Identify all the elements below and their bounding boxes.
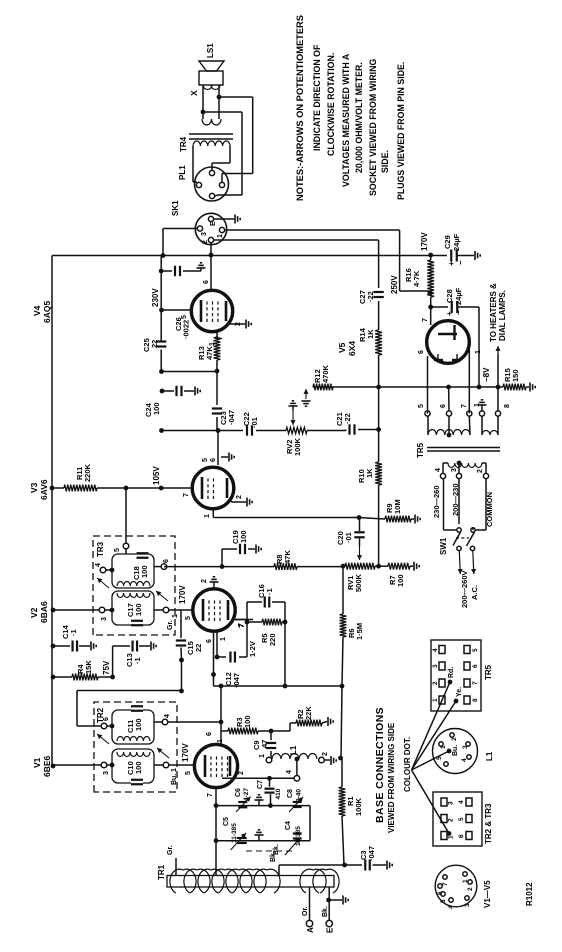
terminal A — [302, 887, 315, 933]
wire voice coil bottom — [218, 85, 220, 119]
svg-text:1: 1 — [172, 614, 179, 618]
wire V5 pin1 to TR5-7 — [469, 342, 482, 414]
svg-text:470K: 470K — [321, 364, 330, 383]
wire screen line — [160, 256, 162, 342]
tuned circuit TR2 primary — [112, 749, 154, 783]
svg-text:·22: ·22 — [343, 413, 352, 424]
svg-text:C4: C4 — [285, 821, 292, 830]
svg-text:150: 150 — [511, 369, 520, 382]
trim arrow TR3 b — [156, 591, 168, 601]
svg-text:7: 7 — [472, 681, 479, 685]
svg-text:C7: C7 — [257, 780, 264, 789]
svg-text:1K: 1K — [365, 468, 374, 478]
node RV1 top — [341, 564, 346, 569]
label X — [189, 90, 199, 96]
svg-text:24µF: 24µF — [452, 233, 461, 251]
transformer TR4 primary — [193, 141, 230, 146]
svg-text:·01: ·01 — [344, 532, 353, 543]
svg-text:VOLTAGES MEASURED WITH A: VOLTAGES MEASURED WITH A — [341, 53, 351, 187]
ground osc B — [255, 830, 264, 841]
diagram V1-V5 base — [435, 865, 492, 909]
note line 3 — [326, 53, 336, 156]
svg-text:2: 2 — [467, 887, 474, 891]
label 230V — [151, 288, 160, 307]
resistor R5 — [260, 619, 282, 646]
svg-text:100: 100 — [134, 761, 143, 774]
wire V5 pin6 to TR5-5 — [418, 350, 428, 414]
wire TR2-1 to V1 pin5 — [169, 764, 195, 766]
svg-text:+: + — [445, 311, 454, 316]
node C23/screen line — [216, 428, 221, 433]
note line 5 — [354, 62, 364, 173]
svg-text:·0022: ·0022 — [182, 320, 191, 339]
svg-text:1·5M: 1·5M — [355, 623, 364, 640]
trim arrow TR2 b — [157, 748, 169, 758]
svg-text:5: 5 — [185, 616, 192, 620]
lines colour dot TR5 — [412, 682, 457, 770]
wire SK1-bottom line — [214, 239, 379, 241]
svg-text:4: 4 — [286, 770, 293, 774]
label VIEWED FROM WIRING SIDE — [387, 722, 396, 833]
svg-text:SK1: SK1 — [171, 200, 180, 216]
svg-text:6BE6: 6BE6 — [42, 755, 52, 777]
label 75V — [102, 660, 111, 675]
tuned circuit TR2 secondary — [112, 710, 154, 744]
label -8V — [482, 367, 491, 382]
capacitor C14 — [51, 624, 97, 651]
svg-text:170V: 170V — [420, 232, 429, 251]
svg-text:SIDE.: SIDE. — [380, 150, 390, 173]
svg-text:2: 2 — [477, 469, 484, 473]
trim arrow TR3 a — [97, 578, 109, 588]
pin TR3-6 — [154, 559, 170, 569]
svg-text:C6: C6 — [235, 788, 242, 797]
svg-text:3: 3 — [432, 664, 439, 668]
pin L1-2 — [319, 752, 329, 763]
svg-text:4: 4 — [95, 563, 102, 567]
svg-text:·1: ·1 — [265, 588, 274, 595]
svg-text:6: 6 — [163, 559, 170, 563]
transformer TR5 primary — [448, 463, 482, 468]
svg-text:22K: 22K — [304, 706, 313, 720]
svg-text:220K: 220K — [83, 463, 92, 482]
note line 8 — [396, 62, 406, 200]
wire Bk to C3 — [270, 851, 345, 875]
transformer TR2 box — [94, 702, 177, 792]
svg-text:Bk.: Bk. — [270, 851, 277, 862]
svg-text:NOTES:-ARROWS ON POTENTIOMETER: NOTES:-ARROWS ON POTENTIOMETERS — [295, 15, 305, 201]
wire B+ right drop — [52, 255, 431, 257]
resistor R9 — [359, 499, 420, 523]
pin TR5-8 — [495, 404, 511, 435]
svg-text:100: 100 — [134, 603, 143, 616]
pin SK1-3 — [197, 226, 208, 236]
wire R5 bottom — [282, 620, 287, 686]
svg-text:A: A — [306, 927, 315, 933]
svg-text:100K: 100K — [293, 437, 302, 456]
pin TR5-5 — [418, 404, 430, 435]
transformer TR5 heater winding — [482, 431, 498, 436]
wire RV2 to C21 — [307, 430, 346, 431]
label Bk. rod — [273, 844, 280, 855]
wire osc line A — [216, 805, 310, 807]
svg-text:SOCKET VIEWED FROM WIRING: SOCKET VIEWED FROM WIRING — [368, 59, 378, 196]
wire V1 cathode — [207, 787, 218, 876]
svg-text:6: 6 — [203, 280, 210, 284]
pin PL1-c — [219, 182, 224, 187]
svg-text:6: 6 — [418, 350, 425, 354]
colour dot Rd — [448, 667, 455, 685]
svg-text:105V: 105V — [152, 466, 161, 485]
label 200-230 — [451, 483, 460, 516]
capacitor C9 — [252, 731, 276, 758]
svg-text:6AV6: 6AV6 — [39, 479, 49, 500]
svg-text:+: + — [447, 261, 456, 266]
wire TR2-3 to bus — [53, 764, 101, 766]
wire R6 to R1 node — [341, 686, 342, 758]
colour dot Bu — [447, 745, 459, 756]
gang dashed link — [246, 850, 292, 852]
svg-text:6: 6 — [210, 458, 217, 462]
wire TR4 prim top to PL1 — [193, 146, 197, 182]
resistor R13 — [197, 332, 220, 371]
capacitor C25 — [142, 338, 166, 371]
node 170V — [420, 232, 433, 258]
svg-text:6: 6 — [206, 732, 213, 736]
svg-text:2: 2 — [451, 737, 458, 741]
pin TR5-1 — [474, 403, 485, 435]
svg-text:5: 5 — [440, 899, 447, 903]
tube V1 — [194, 744, 237, 787]
svg-text:INDICATE DIRECTION OF: INDICATE DIRECTION OF — [312, 44, 322, 151]
pin L1-4 — [286, 757, 300, 782]
pin PL1-d — [209, 193, 214, 198]
svg-text:6BA6: 6BA6 — [39, 601, 49, 623]
pin TR3-1 — [154, 607, 179, 618]
diagram TR5 base — [431, 640, 481, 711]
wire V4 pin2 ground — [228, 320, 251, 329]
label V2 pins — [206, 637, 227, 643]
svg-text:V5: V5 — [337, 342, 347, 353]
ground R15 — [526, 383, 535, 392]
svg-text:100: 100 — [243, 715, 252, 728]
svg-text:100: 100 — [239, 530, 248, 543]
winding TR1 primary — [170, 869, 280, 893]
pin TR2-4 — [154, 714, 171, 725]
arrow heater feed top — [302, 389, 311, 406]
svg-text:7: 7 — [183, 493, 190, 497]
wire B+ bus (top rail) — [51, 256, 53, 767]
svg-text:·047: ·047 — [367, 846, 376, 861]
wire C25 feed — [159, 369, 217, 374]
label TR2 and TR3 base — [484, 803, 493, 844]
label 200-260V A.C. — [460, 570, 479, 608]
winding TR3 secondary — [117, 582, 150, 587]
winding TR1 secondary — [300, 869, 339, 893]
colour dot Ye — [454, 687, 463, 704]
svg-text:5: 5 — [458, 817, 465, 821]
svg-text:X: X — [189, 90, 199, 96]
svg-text:4-27: 4-27 — [243, 788, 250, 801]
pins TR2TR3 base — [441, 798, 472, 840]
pin SK1-E — [208, 216, 217, 226]
svg-text:4: 4 — [448, 905, 455, 909]
node R4/75V — [110, 675, 115, 680]
capacitor C29 — [431, 233, 481, 266]
label V1 6BE6 — [32, 755, 52, 777]
label TO HEATERS — [489, 283, 507, 342]
resistor R6 — [340, 566, 364, 686]
svg-text:Or.: Or. — [302, 906, 309, 916]
wire V2 pin5 — [169, 610, 193, 620]
svg-text:E: E — [326, 927, 335, 933]
label Bu. — [171, 774, 178, 785]
svg-text:3: 3 — [462, 745, 469, 749]
pin TR5-2 — [477, 463, 489, 479]
svg-text:·1: ·1 — [69, 629, 78, 636]
svg-text:A.C.: A.C. — [470, 585, 479, 600]
resistor R11 — [52, 463, 97, 491]
wire TR2-6 riser — [77, 691, 182, 727]
ground V3 top — [221, 453, 234, 462]
svg-text:10M: 10M — [393, 499, 402, 514]
svg-text:7: 7 — [442, 882, 449, 886]
pin TR5-3 — [451, 461, 462, 479]
svg-text:·01: ·01 — [250, 417, 259, 428]
pin SK1-1 — [217, 227, 225, 238]
node R5 left — [245, 620, 250, 625]
ground TR5-1 — [478, 400, 487, 411]
resistor R3 — [221, 715, 273, 734]
node speaker tap 2 — [217, 95, 222, 100]
trim arrow TR2 a — [97, 734, 109, 744]
svg-text:L1: L1 — [289, 745, 298, 755]
svg-text:1: 1 — [217, 234, 224, 238]
wire C21 to long line — [358, 427, 381, 432]
svg-text:7: 7 — [461, 404, 468, 408]
wire V1 pin2 — [222, 771, 294, 781]
svg-text:7: 7 — [207, 793, 214, 797]
transformer TR5 core — [416, 442, 500, 458]
capacitor C10 — [126, 761, 143, 785]
resistor R2 — [271, 706, 333, 731]
svg-text:200—260V: 200—260V — [460, 570, 469, 608]
pin TR3-4 — [95, 563, 114, 573]
capacitor C8 — [287, 789, 303, 812]
wire det line — [164, 566, 274, 568]
wire TR2-4 to V1 plate — [168, 720, 224, 725]
svg-text:E: E — [210, 221, 217, 226]
svg-text:22: 22 — [150, 340, 159, 348]
label V5 6X4 — [337, 341, 357, 356]
plug PL1 — [178, 165, 229, 201]
svg-text:V1—V5: V1—V5 — [483, 880, 492, 908]
pin L1-1 — [259, 754, 272, 763]
potentiometer RV2 — [285, 427, 307, 456]
transformer TR3 box — [93, 536, 175, 635]
label BASE CONNECTIONS — [374, 707, 386, 823]
svg-text:SW1: SW1 — [439, 537, 448, 555]
svg-text:V3: V3 — [29, 482, 39, 493]
ground V3 pin2 — [229, 495, 252, 507]
svg-text:4: 4 — [432, 648, 439, 652]
svg-text:2: 2 — [201, 579, 208, 583]
ground SK1-E — [214, 215, 241, 224]
svg-text:230—260: 230—260 — [432, 485, 441, 518]
label V3 6AV6 — [29, 479, 49, 500]
svg-text:C29: C29 — [443, 235, 452, 249]
wire V2 pin7 — [235, 620, 253, 628]
wire voice coil top — [202, 85, 204, 119]
pin TR5-7 — [461, 404, 472, 435]
capacitor C26 — [159, 263, 206, 339]
tube V3 — [192, 467, 234, 509]
label 1.2V — [248, 641, 257, 657]
svg-text:11-385: 11-385 — [295, 826, 302, 846]
ground V2 pin2 — [201, 577, 219, 589]
ground osc A — [255, 795, 264, 806]
note line 1 — [295, 15, 305, 201]
line colour dot L1 — [412, 751, 450, 770]
capacitor C12 — [217, 622, 247, 688]
svg-text:5: 5 — [185, 771, 192, 775]
wire V3 pin1 — [204, 509, 359, 518]
svg-text:8: 8 — [472, 698, 479, 702]
svg-text:8: 8 — [504, 404, 511, 408]
resistor R12 — [313, 364, 333, 390]
pin TR2-1 — [154, 762, 178, 772]
svg-text:4: 4 — [435, 468, 442, 472]
wire C15 to corner — [179, 660, 184, 693]
pin TR5-6 — [440, 404, 452, 437]
capacitor C22 — [242, 412, 259, 435]
svg-text:PL1: PL1 — [178, 165, 187, 180]
svg-text:100K: 100K — [354, 797, 363, 816]
capacitor C21 — [335, 412, 355, 434]
wire V2 cathode lines — [211, 631, 219, 686]
pins TR5 base — [432, 646, 479, 705]
svg-text:PLUGS VIEWED FROM PIN SIDE.: PLUGS VIEWED FROM PIN SIDE. — [396, 62, 406, 200]
pin TR3-5 — [114, 543, 129, 554]
wire heater line — [313, 386, 503, 388]
node det/R9 — [357, 515, 362, 520]
svg-text:V2: V2 — [29, 607, 39, 618]
winding TR2 primary — [117, 752, 150, 757]
coil L1 — [272, 745, 317, 759]
node R13/C23 — [215, 369, 220, 374]
node bus/TR2 junction — [51, 764, 56, 769]
node RV1 bottom — [376, 564, 381, 569]
label COLOUR DOT — [403, 737, 412, 792]
svg-text:COLOUR DOT.: COLOUR DOT. — [403, 737, 412, 792]
note line 2 — [312, 44, 322, 151]
tuned circuit TR3 primary — [112, 591, 154, 625]
svg-text:1: 1 — [440, 745, 447, 749]
capacitor C6 — [235, 788, 251, 812]
label V1 pins — [206, 732, 224, 743]
label Gr. — [167, 620, 174, 630]
svg-text:100: 100 — [134, 718, 143, 731]
resistor R10 — [357, 430, 382, 520]
potentiometer RV1 — [345, 563, 375, 592]
svg-text:6: 6 — [103, 717, 110, 721]
wire SK1-2 to bus — [209, 243, 214, 258]
transformer TR1 rod — [157, 864, 334, 887]
wiper RV1 — [357, 546, 362, 560]
node R6 end — [340, 684, 345, 689]
svg-text:24µF: 24µF — [454, 287, 463, 305]
svg-text:LS1: LS1 — [206, 43, 215, 58]
wire TR5-6 to heater line — [448, 387, 450, 411]
wire TR3-3 to bus — [51, 608, 100, 613]
diagram L1 base — [433, 729, 495, 774]
svg-text:8-40: 8-40 — [296, 789, 303, 802]
wire SK1-3 to bus — [161, 229, 198, 258]
node bus/V3 — [50, 486, 55, 491]
svg-text:TR2 & TR3: TR2 & TR3 — [484, 803, 493, 844]
svg-text:·1: ·1 — [133, 657, 142, 664]
svg-text:TR5: TR5 — [484, 664, 493, 680]
wire V5 pin7 — [422, 307, 431, 325]
capacitor C24 — [144, 386, 200, 417]
svg-text:VIEWED FROM WIRING SIDE: VIEWED FROM WIRING SIDE — [387, 722, 396, 833]
speaker LS1 — [199, 43, 224, 90]
svg-text:5: 5 — [202, 458, 209, 462]
svg-text:4: 4 — [458, 800, 465, 804]
wire TR5-8 heater feed — [495, 346, 500, 411]
capacitor C23 — [212, 371, 236, 431]
svg-text:4: 4 — [164, 714, 171, 718]
svg-text:4·7K: 4·7K — [412, 270, 421, 287]
svg-text:3: 3 — [101, 617, 108, 621]
label TR5 base — [484, 664, 493, 680]
wire V3 pin6 — [202, 431, 218, 466]
svg-text:1: 1 — [204, 514, 211, 518]
wire PL1-d to speaker — [203, 112, 242, 196]
svg-text:6: 6 — [206, 639, 213, 643]
svg-text:170V: 170V — [178, 585, 187, 604]
svg-text:100: 100 — [140, 565, 149, 578]
capacitor C7 — [257, 778, 282, 808]
node det/C19 — [220, 564, 225, 569]
svg-text:5: 5 — [114, 548, 121, 552]
svg-text:250V: 250V — [390, 275, 399, 294]
svg-text:2: 2 — [235, 322, 242, 326]
node speaker tap 1 — [201, 110, 206, 115]
svg-text:6: 6 — [437, 891, 444, 895]
svg-text:3: 3 — [201, 232, 208, 236]
resistor R16 — [404, 256, 434, 310]
svg-text:BASE CONNECTIONS: BASE CONNECTIONS — [374, 707, 386, 823]
label 170V v2 — [178, 585, 187, 604]
ground L1-2 — [324, 756, 343, 765]
svg-text:6X4: 6X4 — [347, 341, 357, 356]
label 230-260 — [432, 485, 441, 518]
capacitor C3 — [345, 846, 393, 871]
svg-text:5: 5 — [472, 648, 479, 652]
svg-text:Bk.: Bk. — [322, 906, 329, 917]
svg-text:3: 3 — [451, 468, 458, 472]
transformer TR5 HT winding — [428, 430, 470, 436]
svg-text:TO HEATERS &: TO HEATERS & — [489, 283, 498, 342]
capacitor C11 — [126, 706, 143, 733]
svg-text:410: 410 — [275, 788, 282, 799]
wire R10 to det line — [378, 519, 380, 566]
note line 4 — [341, 53, 351, 187]
line colour dot TR2TR3 — [412, 770, 450, 834]
svg-text:−: − — [454, 310, 463, 315]
svg-text:1: 1 — [259, 754, 266, 758]
